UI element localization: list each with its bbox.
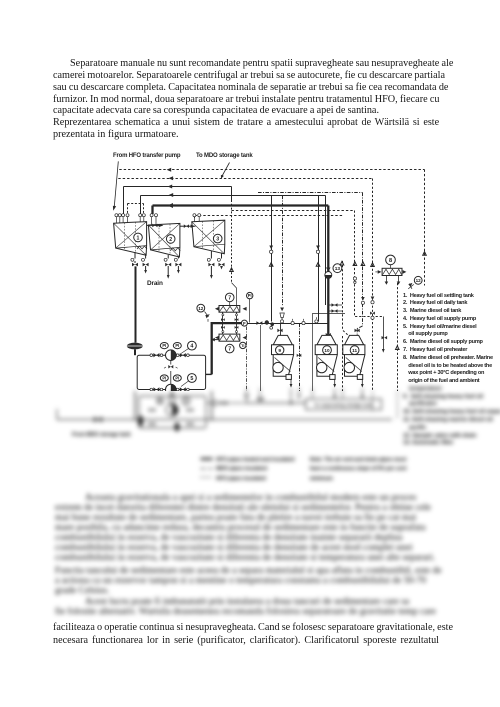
wire: dash-dot line L7 <box>258 192 363 194</box>
separator 9 (purifier) <box>272 324 294 388</box>
MDO pump loop box (blurred) <box>139 396 206 428</box>
valve on MDO line (blurred) <box>94 417 102 423</box>
preheater E1 (heavy fuel oil preheater, top) <box>215 306 247 313</box>
wire: thick vertical to separator 10 <box>327 206 329 335</box>
wire: cross-over stubs with valves <box>328 303 342 313</box>
relief valve between pumps <box>164 361 178 385</box>
wire: thick discharge riser to preheaters <box>206 323 242 374</box>
wire: dashed vertical x=372.5 <box>370 179 375 392</box>
fitting: dark ball valves on manifold <box>265 320 274 329</box>
sample valve near right 12 <box>408 283 414 289</box>
legend items 9-13 (blurred) <box>403 386 500 448</box>
gauge PI (after preheater) <box>247 292 253 322</box>
preheater E2 (heavy fuel oil preheater, bottom) <box>215 334 247 341</box>
valve: tank2 right outlet + arrow <box>174 257 181 274</box>
pump loop box (supply pumps 4/5) <box>137 355 205 389</box>
svg-text:PI: PI <box>158 399 162 404</box>
wire: sludge pipe corner <box>313 314 346 392</box>
wire: vertical feed x=231.7 <box>230 187 237 306</box>
sample valve near 12 <box>205 312 210 322</box>
label under MDO line (blurred) <box>72 432 131 438</box>
wire: dashed line L1 (HFO transfer, top) <box>119 168 424 172</box>
gauge PI (P5 suction) <box>160 375 168 381</box>
gauge TI <box>240 342 246 348</box>
wire: separator feed manifold <box>247 323 328 325</box>
wire: dashed vertical x=354.9 <box>353 211 383 317</box>
wire: dashed line L6b <box>195 216 343 220</box>
label circle 7 (bottom preheater) <box>225 344 234 353</box>
pump P5 (HFO/MDO stand-by pump) <box>166 384 177 395</box>
sludge collector box (blurred) <box>306 399 382 410</box>
wire: thick HFO supply line L5 <box>153 203 329 214</box>
wire: tank1-tank2 transfer with valve <box>147 224 164 228</box>
valve: tank3 left outlet + arrow <box>207 251 214 279</box>
key text (blurred) <box>216 456 294 485</box>
wire: solid line L3 <box>124 185 232 214</box>
gauge PI (P4 suction) <box>160 343 168 349</box>
legend list <box>403 293 493 387</box>
separator 10 (heavy fuel oil separator) <box>315 333 337 388</box>
fittings on manifold <box>280 317 318 325</box>
valve left of P5 <box>150 387 163 391</box>
valve: tank3 right outlet + arrow <box>217 253 224 270</box>
wire: vertical feed x=318 with valve <box>316 196 320 322</box>
valve right of P5 <box>176 387 189 391</box>
wire: label pointer From HFO <box>113 161 118 210</box>
vent valves on tank tops <box>115 214 201 225</box>
pump P4 (heavy fuel oil supply pump) <box>166 350 177 361</box>
label circle 12 (right) <box>414 276 422 284</box>
wire: vertical x=325.2 <box>325 196 327 306</box>
separator 11 (marine diesel oil separator) <box>343 329 365 388</box>
valves in P6 box (blurred) <box>149 408 193 426</box>
valve on manifold after F <box>256 321 262 325</box>
label circle 12 (viscosity/sample valve) <box>197 304 205 312</box>
wire: dashed continuations (blurred) <box>135 391 397 421</box>
gauge PI (P4 discharge) <box>173 343 181 349</box>
wire: MDO preheater drain line <box>382 317 388 353</box>
dark strainer on MDO line (blurred) <box>138 416 180 432</box>
svg-text:6: 6 <box>185 399 188 405</box>
deaeration vessel on feed line <box>127 343 143 356</box>
gauges above P6 (blurred) <box>157 397 190 405</box>
valve: tank1 right outlet + drain arrow <box>142 254 149 274</box>
wire: vertical feed x=271.2 with valve <box>269 196 273 322</box>
wire: drain drop from manifold valve <box>260 325 262 391</box>
wire: dash-dot vertical x=362.9 to separator 11 <box>357 193 365 336</box>
fittings right of P6 box (blurred) <box>206 394 264 405</box>
label circle 7 (top preheater) <box>225 293 234 305</box>
gauge F (flow meter) <box>241 320 247 326</box>
wire: dashed line L2 <box>118 176 372 180</box>
wire: preheater connecting pipes <box>221 312 238 334</box>
preheater E3 (marine diesel oil preheater) <box>375 268 406 275</box>
gauge PI (P5 discharge) <box>173 375 181 381</box>
tank 1 (heavy fuel oil settling tank) <box>114 222 147 256</box>
label circle 5 <box>181 374 196 387</box>
wire: dashed vertical x=342 <box>340 261 349 391</box>
wire: label pointer To MDO <box>221 163 230 179</box>
svg-text:To separating sludge tank: To separating sludge tank <box>314 403 373 409</box>
tank 3 (marine diesel oil tank) <box>192 220 225 254</box>
valve: tank1 left outlet <box>131 252 138 266</box>
valve 13 (change-over valve) <box>325 268 332 279</box>
pipe legend key line samples (blurred) <box>201 459 213 477</box>
label circle 13 <box>333 264 342 273</box>
wire: recirculation arrow at riser <box>211 338 219 342</box>
wire: dashed vertical x=397.3 <box>396 283 400 391</box>
wire: thick HFO feed down from tank 1 <box>135 266 137 342</box>
wire: solid line L4 <box>141 193 326 214</box>
label circle 4 <box>181 341 196 353</box>
wire: dash-dot vertical x=282.1 with valve <box>280 196 284 320</box>
wire: dashed vertical x=424.5 <box>423 170 427 286</box>
preheater E3 legs <box>385 276 401 285</box>
wire: dashed line L6a <box>232 210 355 212</box>
blurred paragraph A <box>85 492 416 504</box>
tank 2 (heavy fuel oil daily tank) <box>148 223 180 257</box>
wire: dash-dot drain from flow meter <box>246 327 248 392</box>
valve left of P4 <box>150 353 163 357</box>
wire: dash-dot sludge line x=299 <box>297 324 302 392</box>
label circle 8 <box>386 255 396 268</box>
wire: MDO suction line (blurred) <box>57 388 392 420</box>
valve: tank2 left outlet + arrow <box>164 255 171 279</box>
wire: tank2-tank3 transfer with valve <box>180 224 196 228</box>
valve right of P4 <box>176 353 189 357</box>
pump P6 (blurred) <box>166 391 178 416</box>
wire: short dashed line L4b <box>128 204 144 214</box>
wire: separator outlets into collector (blurred) <box>290 388 364 406</box>
